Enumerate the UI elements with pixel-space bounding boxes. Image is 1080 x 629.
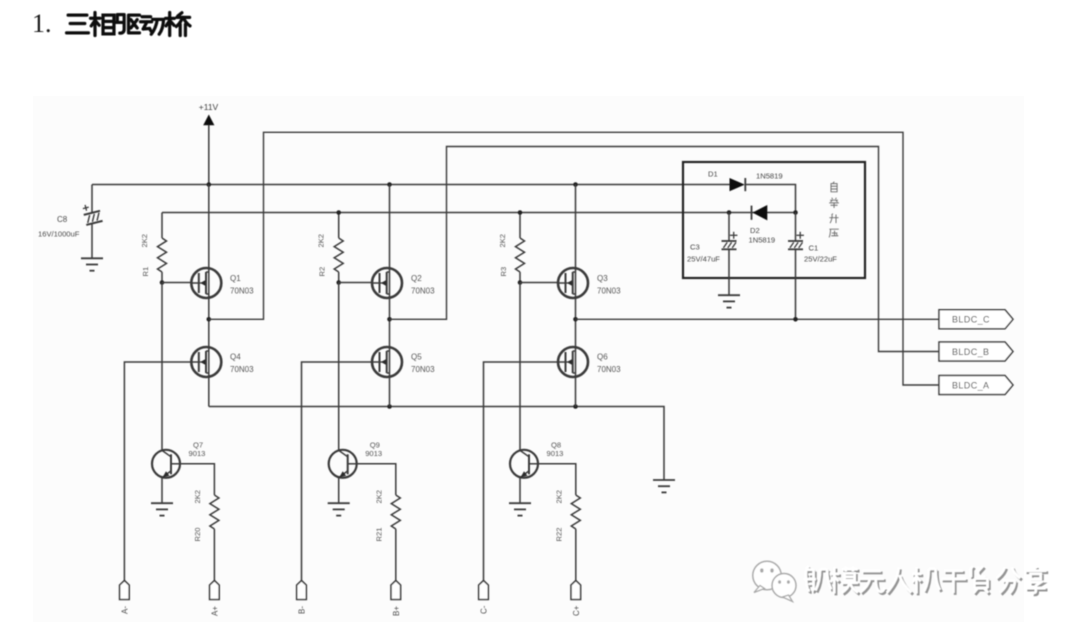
Q8 labels bbox=[547, 441, 564, 459]
svg-text:B+: B+ bbox=[392, 606, 401, 616]
transistor Q8 bbox=[510, 450, 538, 478]
watermark text white bbox=[803, 566, 1046, 593]
node dot rail/Q2 bbox=[387, 182, 392, 187]
R22 labels bbox=[554, 490, 563, 542]
node dot R1 bottom bbox=[160, 280, 165, 285]
wire Q7 collector riser bbox=[161, 283, 163, 451]
R20 labels bbox=[193, 490, 202, 542]
svg-text:C3: C3 bbox=[690, 243, 700, 252]
wire Q1 drain bbox=[208, 185, 210, 269]
wire D2 row bbox=[729, 212, 796, 214]
connector A+ bbox=[210, 581, 220, 600]
svg-text:70N03: 70N03 bbox=[230, 287, 254, 296]
wire Q8 base to R22 bbox=[538, 464, 576, 495]
svg-text:9013: 9013 bbox=[189, 449, 206, 458]
wire Q2 drain bbox=[389, 185, 391, 269]
resistor R1 bbox=[158, 238, 167, 272]
wire R21 to B+ bbox=[395, 529, 397, 581]
title char qu bbox=[116, 15, 139, 34]
capacitor C3 bbox=[722, 232, 738, 250]
node BLDC_C tag bbox=[939, 310, 1013, 329]
svg-text:25V/22uF: 25V/22uF bbox=[804, 255, 837, 264]
Q2 labels bbox=[411, 274, 435, 296]
wire Q1 source to Q4 drain bbox=[208, 298, 210, 348]
svg-text:Q1: Q1 bbox=[230, 274, 241, 283]
node BLDC_A tag bbox=[939, 376, 1013, 395]
node dot rail/Q1 bbox=[207, 182, 212, 187]
capacitor C8 bbox=[82, 202, 103, 225]
bootstrap box vertical label zi-ju-sheng-ya bbox=[829, 182, 839, 238]
mosfet Q4 bbox=[191, 347, 221, 377]
low side source rail bbox=[209, 407, 664, 481]
svg-text:2K2: 2K2 bbox=[374, 490, 383, 504]
Q3 labels bbox=[597, 274, 621, 296]
svg-text:Q2: Q2 bbox=[411, 274, 422, 283]
Q7 labels bbox=[189, 441, 206, 459]
resistor R22 bbox=[571, 495, 580, 529]
connector B- bbox=[297, 581, 307, 600]
top +11V rail wire bbox=[92, 184, 731, 186]
svg-text:R3: R3 bbox=[499, 267, 508, 277]
resistor R3 wires bbox=[519, 213, 521, 283]
node dot C1 output bbox=[793, 317, 798, 322]
node dot R3 bottom bbox=[518, 280, 523, 285]
node dot phase C output bbox=[573, 317, 578, 322]
svg-text:R20: R20 bbox=[193, 528, 202, 542]
node dot rail/Q3 bbox=[573, 182, 578, 187]
resistor R3 bbox=[516, 238, 525, 272]
node dot R2 top bbox=[336, 210, 341, 215]
schematic light background bbox=[33, 96, 1024, 622]
node dot C3 bbox=[727, 210, 732, 215]
svg-text:Q5: Q5 bbox=[411, 353, 422, 362]
node dot R2 bottom bbox=[336, 280, 341, 285]
C3 labels bbox=[687, 243, 720, 264]
C1 labels bbox=[804, 244, 837, 264]
mosfet Q6 bbox=[558, 347, 588, 377]
svg-text:R1: R1 bbox=[141, 267, 150, 277]
Q5 labels bbox=[411, 353, 435, 375]
R2 labels bbox=[317, 234, 327, 277]
ground under C8 bbox=[81, 258, 103, 270]
svg-text:1.: 1. bbox=[32, 9, 52, 38]
svg-text:9013: 9013 bbox=[365, 449, 382, 458]
node dot phase A output bbox=[207, 317, 212, 322]
mosfet Q1 bbox=[191, 268, 221, 298]
wire Q8 emitter bbox=[519, 477, 521, 503]
svg-text:70N03: 70N03 bbox=[230, 365, 254, 374]
bootstrap box frame bbox=[683, 162, 865, 278]
wire Q9 emitter bbox=[338, 477, 340, 503]
svg-text:Q4: Q4 bbox=[230, 353, 241, 362]
connector A- bbox=[120, 581, 130, 600]
svg-text:1N5819: 1N5819 bbox=[756, 172, 783, 181]
wire Q3 source to Q6 drain bbox=[575, 298, 577, 348]
connector C- bbox=[479, 581, 489, 600]
wire D1 cathode down bbox=[745, 185, 795, 213]
resistor R21 bbox=[391, 495, 400, 529]
wire Q7 emitter bbox=[161, 477, 163, 503]
wire Q4 gate from A- line bbox=[124, 362, 191, 581]
R1 labels bbox=[140, 234, 150, 277]
R21 labels bbox=[374, 490, 383, 542]
D2 labels bbox=[749, 226, 776, 244]
title char san bbox=[67, 15, 89, 33]
resistor R20 bbox=[210, 495, 219, 529]
resistor R1 wires bbox=[161, 213, 163, 283]
wire phase C output to BLDC_C bbox=[576, 318, 940, 320]
ground under Q7 bbox=[151, 503, 173, 515]
wire R20 to A+ bbox=[213, 529, 215, 581]
svg-text:70N03: 70N03 bbox=[411, 287, 435, 296]
node dot Q5 source bbox=[387, 404, 392, 409]
wire Q2 source to Q5 drain bbox=[389, 298, 391, 348]
ground right of circuit bbox=[653, 480, 675, 492]
svg-text:BLDC_C: BLDC_C bbox=[952, 315, 990, 325]
wire Q1 gate bbox=[162, 282, 191, 284]
wire phase B output jog bbox=[390, 147, 940, 352]
svg-text:2K2: 2K2 bbox=[193, 490, 202, 504]
wire R22 to C+ bbox=[575, 529, 577, 581]
Q1 labels bbox=[230, 274, 254, 296]
svg-text:70N03: 70N03 bbox=[411, 365, 435, 374]
wire Q3 gate bbox=[520, 282, 558, 284]
wire Q7 base to R20 bbox=[180, 464, 214, 495]
ground under C3 bbox=[718, 295, 740, 307]
node BLDC_B tag bbox=[939, 342, 1013, 361]
svg-text:70N03: 70N03 bbox=[597, 287, 621, 296]
svg-text:70N03: 70N03 bbox=[597, 365, 621, 374]
svg-text:2K2: 2K2 bbox=[140, 234, 149, 248]
svg-text:C-: C- bbox=[480, 605, 489, 614]
svg-text:16V/1000uF: 16V/1000uF bbox=[38, 230, 80, 239]
svg-text:D1: D1 bbox=[708, 170, 718, 179]
diode D2 bbox=[752, 205, 768, 220]
svg-text:A-: A- bbox=[121, 606, 130, 614]
wire C8 drop bbox=[91, 185, 93, 259]
wire C1 drop bbox=[795, 213, 797, 320]
svg-text:A+: A+ bbox=[211, 606, 220, 616]
svg-text:B-: B- bbox=[298, 606, 307, 614]
svg-text:1N5819: 1N5819 bbox=[749, 235, 776, 244]
watermark bbox=[753, 561, 1048, 601]
wire Q5 gate from B- line bbox=[302, 362, 373, 581]
resistor R2 wires bbox=[338, 213, 340, 283]
title char xiang bbox=[91, 13, 114, 36]
mosfet Q3 bbox=[558, 268, 588, 298]
transistor Q9 bbox=[329, 450, 357, 478]
ground under Q8 bbox=[509, 503, 531, 515]
svg-text:+11V: +11V bbox=[199, 102, 219, 112]
svg-text:R21: R21 bbox=[374, 528, 383, 542]
title char qiao bbox=[166, 13, 190, 36]
connector C+ bbox=[571, 581, 581, 600]
svg-text:C+: C+ bbox=[572, 605, 581, 616]
wire Q9 collector riser bbox=[338, 283, 340, 451]
mosfet Q2 bbox=[372, 268, 402, 298]
svg-text:Q6: Q6 bbox=[597, 353, 608, 362]
node dot phase B output bbox=[387, 317, 392, 322]
wire Q6 source bbox=[575, 377, 577, 407]
Q9 labels bbox=[365, 441, 382, 459]
wire Q6 gate from C- line bbox=[484, 362, 559, 581]
wire Q9 base to R21 bbox=[357, 464, 396, 495]
svg-text:2K2: 2K2 bbox=[498, 234, 507, 248]
svg-text:BLDC_A: BLDC_A bbox=[952, 380, 989, 390]
title char dong bbox=[141, 17, 164, 35]
diode D1 bbox=[730, 178, 746, 191]
node dot R3 top bbox=[518, 210, 523, 215]
svg-text:BLDC_B: BLDC_B bbox=[952, 347, 989, 357]
wire Q3 drain bbox=[575, 185, 577, 269]
svg-text:C8: C8 bbox=[57, 215, 68, 224]
svg-text:R22: R22 bbox=[554, 528, 563, 542]
wire Q2 gate bbox=[339, 282, 372, 284]
wire Q4 source bbox=[208, 377, 210, 407]
svg-text:2K2: 2K2 bbox=[554, 490, 563, 504]
node dot Q6 source bbox=[573, 404, 578, 409]
watermark text shadow bbox=[805, 568, 1048, 595]
svg-text:2K2: 2K2 bbox=[317, 234, 326, 248]
C8 labels bbox=[38, 215, 80, 239]
svg-text:25V/47uF: 25V/47uF bbox=[687, 255, 720, 264]
svg-text:Q3: Q3 bbox=[597, 274, 608, 283]
svg-text:9013: 9013 bbox=[547, 449, 564, 458]
gate pull-up rail bbox=[162, 212, 729, 214]
wire Q8 collector riser bbox=[519, 283, 521, 451]
transistor Q7 bbox=[152, 450, 180, 478]
svg-text:R2: R2 bbox=[318, 267, 327, 277]
wire Q5 source bbox=[389, 377, 391, 407]
page title bbox=[32, 9, 190, 38]
resistor R2 bbox=[334, 238, 343, 272]
capacitor C1 bbox=[788, 232, 804, 250]
svg-text:C1: C1 bbox=[809, 244, 819, 253]
connector B+ bbox=[391, 581, 401, 600]
wire phase A output jog bbox=[209, 132, 939, 385]
svg-text:D2: D2 bbox=[750, 226, 760, 235]
D1 labels bbox=[708, 170, 783, 181]
node dot C1 bbox=[793, 210, 798, 215]
Q4 labels bbox=[230, 353, 254, 375]
ground under Q9 bbox=[328, 503, 350, 515]
+11V power symbol bbox=[199, 102, 219, 185]
wire C3 drop bbox=[728, 213, 730, 296]
mosfet Q5 bbox=[372, 347, 402, 377]
R3 labels bbox=[498, 234, 508, 277]
watermark logo chat bubbles bbox=[753, 561, 796, 601]
Q6 labels bbox=[597, 353, 621, 375]
